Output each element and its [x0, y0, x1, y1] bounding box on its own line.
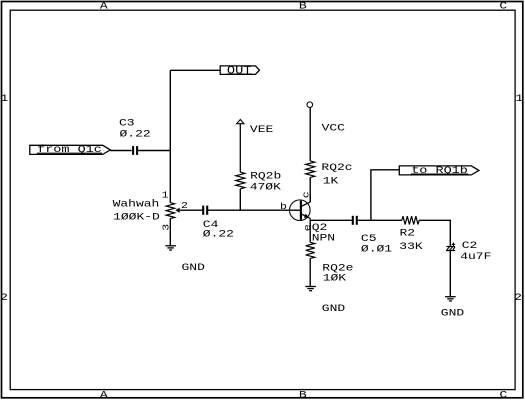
- svg-text:B: B: [299, 390, 307, 400]
- svg-text:2: 2: [514, 292, 522, 303]
- wire R2 to C2: [419, 220, 450, 246]
- svg-text:1K: 1K: [323, 176, 339, 187]
- wire RQ2e to ground: [309, 258, 311, 286]
- wire RQ2b to base net: [239, 189, 241, 210]
- svg-text:C: C: [499, 1, 507, 12]
- wire emitter to C5: [310, 219, 352, 221]
- svg-text:R2: R2: [400, 228, 416, 239]
- svg-text:to RQ1b: to RQ1b: [411, 165, 468, 177]
- svg-text:33K: 33K: [399, 241, 422, 252]
- svg-text:VCC: VCC: [322, 123, 345, 134]
- svg-text:VEE: VEE: [250, 124, 273, 135]
- svg-text:RQ2b: RQ2b: [250, 171, 281, 182]
- wire to OUT flag: [170, 69, 220, 71]
- net label "OUT" output flag: [220, 66, 259, 75]
- wire C2 to ground: [449, 251, 451, 297]
- svg-text:C: C: [499, 390, 507, 400]
- svg-text:GND: GND: [182, 262, 205, 273]
- wire emitter down to RQ2e: [309, 220, 311, 242]
- capacitor C2 polarized: [446, 246, 455, 248]
- wire C3 to node A1: [138, 150, 170, 152]
- wire C5 to R2: [358, 219, 402, 221]
- svg-text:1ØØK-D: 1ØØK-D: [113, 212, 160, 223]
- svg-text:RQ2c: RQ2c: [321, 162, 352, 173]
- svg-text:from Q1c: from Q1c: [37, 144, 102, 156]
- wire RQ2c to collector: [309, 177, 311, 202]
- wire VCC to RQ2c: [309, 108, 311, 161]
- wire node up to "to RQ1b" flag: [371, 170, 399, 221]
- net label "to RQ1b" output flag: [399, 166, 479, 175]
- wire from Q1c flag to C3: [110, 150, 131, 152]
- ground: [165, 245, 176, 247]
- svg-text:B: B: [299, 1, 307, 12]
- svg-text:Ø.22: Ø.22: [120, 129, 151, 140]
- svg-text:OUT: OUT: [227, 65, 252, 77]
- wire wiper to C4: [180, 209, 203, 211]
- resistor R2: [402, 216, 419, 224]
- svg-text:1ØK: 1ØK: [323, 273, 346, 284]
- power symbol VCC: [307, 102, 313, 108]
- resistor RQ2c: [306, 161, 315, 178]
- capacitor C4: [202, 206, 204, 215]
- svg-text:4u7F: 4u7F: [460, 251, 491, 262]
- svg-text:C2: C2: [462, 240, 478, 251]
- transistor Q2: [290, 200, 311, 221]
- potentiometer Wahwah 100K-D body: [166, 203, 174, 219]
- ground: [305, 286, 316, 288]
- power symbol VEE: [239, 124, 241, 173]
- wire potentiometer to ground: [169, 219, 171, 246]
- svg-text:1: 1: [162, 190, 169, 200]
- net label "from Q1c" input flag: [30, 145, 111, 154]
- capacitor C3: [132, 146, 134, 155]
- svg-text:A: A: [100, 1, 108, 12]
- wire node A1 vertical (OUT to potentiometer): [169, 70, 171, 202]
- svg-text:A: A: [100, 390, 108, 400]
- svg-text:2: 2: [0, 292, 8, 303]
- resistor RQ2b: [236, 172, 245, 189]
- svg-text:Ø.Ø1: Ø.Ø1: [361, 243, 392, 254]
- svg-text:GND: GND: [441, 308, 464, 319]
- svg-text:Wahwah: Wahwah: [113, 199, 160, 210]
- wire C4 to transistor base: [208, 209, 300, 211]
- potentiometer wiper arrow: [175, 208, 179, 213]
- svg-text:Ø.22: Ø.22: [203, 228, 234, 239]
- svg-text:47ØK: 47ØK: [250, 182, 281, 193]
- svg-text:C3: C3: [119, 117, 135, 128]
- resistor RQ2e: [306, 242, 315, 258]
- ground: [445, 296, 456, 298]
- svg-text:b: b: [280, 202, 287, 212]
- svg-text:1: 1: [0, 93, 8, 104]
- capacitor C5: [352, 216, 354, 225]
- svg-text:GND: GND: [322, 303, 345, 314]
- svg-text:NPN: NPN: [312, 233, 335, 244]
- svg-text:1: 1: [515, 93, 523, 104]
